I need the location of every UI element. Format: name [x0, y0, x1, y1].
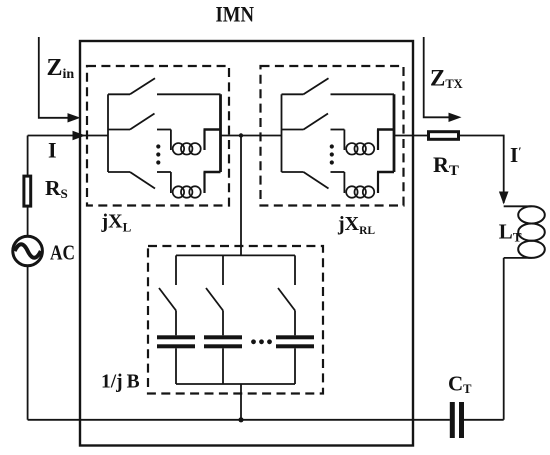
node bottom junction [238, 417, 243, 422]
jXL right rail [219, 94, 222, 172]
matching block jXRL dashed box [261, 66, 404, 206]
wire input [28, 135, 108, 137]
jXL switch S1 [130, 78, 155, 94]
svg-text:IMN: IMN [216, 2, 255, 27]
svg-text:ZTX: ZTX [430, 66, 463, 92]
svg-text:I: I [48, 138, 57, 163]
Zin arrow [39, 37, 69, 118]
arrow I' [499, 192, 509, 205]
wire 1/jB to bottom node [240, 384, 242, 420]
jXRL inductor L1 [344, 130, 394, 155]
jXL switch S3 [130, 172, 155, 189]
jXRL switch S3 [304, 172, 329, 189]
jXL switch S2 [130, 114, 155, 130]
svg-text:1/j B: 1/j B [101, 372, 140, 393]
capacitor C2 [204, 335, 242, 348]
matching block jXL dashed box [87, 66, 229, 206]
jXL left rail [107, 94, 109, 172]
inductor LT [504, 206, 545, 258]
svg-text:RT: RT [433, 152, 459, 179]
1/jB branch2 top wire [222, 255, 224, 285]
resistor RS [24, 176, 31, 206]
jXRL switch S1 [304, 78, 329, 94]
1/jB branch3 mid wire [294, 311, 296, 336]
jXL branch2 fixed wire [157, 129, 171, 131]
wire RT to corner [460, 136, 504, 204]
ZTX arrow [424, 37, 450, 117]
arrow I [73, 131, 86, 140]
jXL branch3 wire [108, 171, 130, 173]
1/jB branch1 top wire [175, 255, 177, 285]
resistor RT [429, 132, 459, 140]
wire jXL to node [221, 135, 282, 137]
jXRL right rail [393, 94, 396, 172]
jXRL branch1 fixed wire [331, 93, 395, 95]
1/jB bottom bus [176, 383, 295, 385]
capacitor C1 [157, 335, 195, 348]
svg-text:jXRL: jXRL [337, 213, 375, 237]
1/jB top bus [176, 254, 295, 256]
1/jB branch2 bottom wire [222, 348, 224, 384]
1/jB switch S3 [278, 288, 295, 311]
jXL branch1 fixed wire [157, 93, 221, 95]
1/jB branch1 mid wire [175, 311, 177, 336]
svg-text:RS: RS [45, 176, 68, 201]
bottom return wire [28, 419, 450, 421]
svg-text:jXL: jXL [101, 211, 132, 235]
jXL branch3 fixed wire [157, 171, 171, 173]
jXL inductor L2 [171, 172, 221, 198]
jXL dots more branches [156, 144, 160, 164]
wire node to 1/jB [240, 136, 242, 256]
jXRL branch1 wire [282, 93, 304, 95]
1/jB branch1 bottom wire [175, 348, 177, 384]
wire jXRL to RT [394, 135, 427, 137]
1/jB branch2 mid wire [222, 311, 224, 336]
svg-text:Zin: Zin [47, 55, 75, 82]
jXL branch1 wire [108, 93, 130, 95]
jXRL branch2 wire [282, 129, 304, 131]
jXRL switch S2 [304, 114, 329, 130]
jXL branch2 wire [108, 129, 130, 131]
jXRL branch2 fixed wire [331, 129, 345, 131]
1/jB branch3 top wire [294, 255, 296, 285]
1/jB switch S1 [159, 288, 176, 311]
IMN box [80, 41, 413, 446]
1/jB switch S2 [206, 288, 223, 311]
svg-text:I′: I′ [510, 143, 522, 167]
susceptance 1/jB dashed box [148, 246, 323, 394]
wire LT down [503, 258, 505, 420]
1/jB branch3 bottom wire [294, 348, 296, 384]
wire AC down [27, 266, 29, 420]
1/jB dots more branches [251, 339, 272, 344]
svg-text:LT: LT [499, 220, 522, 245]
jXRL inductor L2 [344, 172, 394, 198]
AC source [13, 236, 43, 266]
jXRL dots more branches [330, 144, 334, 164]
capacitor CT [450, 402, 464, 438]
wire RS to AC [27, 206, 29, 236]
jXRL branch3 wire [282, 171, 304, 173]
capacitor C3 [276, 335, 314, 348]
node center junction [239, 133, 243, 137]
jXRL branch3 fixed wire [331, 171, 345, 173]
wire I to RS [27, 136, 29, 177]
jXRL left rail [281, 94, 283, 172]
svg-text:CT: CT [448, 372, 472, 397]
svg-text:AC: AC [50, 241, 75, 265]
jXL inductor L1 [171, 130, 221, 155]
wire CT right [464, 419, 504, 421]
